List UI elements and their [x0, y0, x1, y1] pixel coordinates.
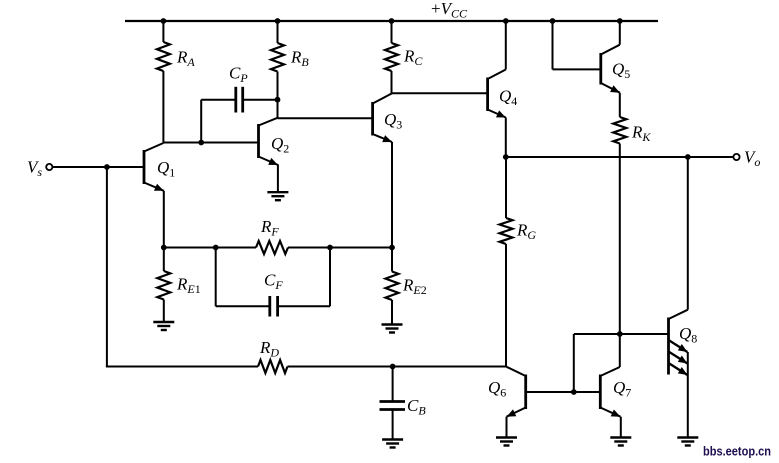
junction on rail at RA	[161, 18, 167, 24]
wire Vs to Q1 base	[53, 166, 145, 168]
wire Q4 emitter to output line	[505, 118, 507, 158]
resistor RC	[385, 21, 423, 93]
node CF right	[327, 245, 333, 251]
transistor Q6	[488, 367, 526, 417]
node Q7 collector junction	[617, 331, 623, 337]
resistor RG	[500, 157, 537, 367]
svg-text:CP: CP	[229, 64, 248, 86]
node CB junction	[390, 364, 396, 370]
svg-text:Q7: Q7	[613, 378, 631, 400]
node output at Q4 emitter	[503, 154, 509, 160]
wire Q6 Q7 base	[526, 391, 601, 393]
junction on rail at Q5 base	[550, 18, 556, 24]
node CF left	[213, 245, 219, 251]
svg-text:RE2: RE2	[402, 276, 427, 298]
transistor Q4	[488, 70, 518, 118]
svg-text:Q4: Q4	[499, 87, 517, 109]
wire Q2 emitter to ground	[277, 165, 279, 193]
ground RE2	[382, 325, 403, 333]
svg-text:RB: RB	[290, 48, 309, 70]
wire Q5 collector to rail	[619, 21, 621, 45]
ground Q8	[677, 438, 698, 446]
svg-text:Q3: Q3	[384, 110, 402, 132]
wire Q7 emitter to ground	[620, 417, 622, 438]
wire feedback node line left	[164, 247, 256, 249]
transistor Q2	[259, 118, 290, 165]
transistor Q7	[600, 367, 631, 417]
watermark	[703, 444, 771, 459]
svg-text:RC: RC	[403, 47, 423, 69]
label +VCC	[431, 0, 468, 21]
wire base junction to Q8 base	[574, 334, 669, 392]
transistor Q5	[601, 45, 630, 93]
transistor Q8	[669, 310, 698, 375]
svg-text:RF: RF	[260, 217, 279, 239]
svg-text:CB: CB	[407, 396, 426, 418]
resistor RE1	[157, 248, 200, 323]
svg-text:+VCC: +VCC	[431, 0, 468, 21]
ground Q6	[496, 438, 517, 446]
power rail +VCC	[125, 20, 658, 22]
ground Q7	[610, 438, 631, 446]
ground Q2	[267, 192, 288, 200]
wire Q1 emitter	[163, 191, 165, 248]
svg-text:bbs.eetop.cn: bbs.eetop.cn	[703, 444, 771, 459]
node feedback at Q1 emitter	[161, 245, 167, 251]
resistor RF	[256, 217, 288, 254]
node input junction	[104, 164, 110, 170]
wire Q5 base loop	[553, 21, 601, 69]
wire Q4 collector to rail	[505, 21, 507, 70]
svg-text:RG: RG	[516, 221, 536, 243]
resistor RE2	[386, 248, 427, 325]
node Q6 Q7 base junction	[571, 389, 577, 395]
svg-text:RA: RA	[176, 48, 195, 70]
svg-text:RK: RK	[631, 123, 651, 145]
svg-text:Vs: Vs	[27, 158, 42, 180]
junction on rail at RB	[275, 18, 281, 24]
node CP right junction	[275, 97, 281, 103]
wire Q8 emitter to ground	[687, 352, 689, 438]
svg-text:Q1: Q1	[157, 158, 175, 180]
node output at Q8 collector	[685, 154, 691, 160]
transistor Q1	[144, 143, 175, 191]
svg-text:Q6: Q6	[488, 378, 506, 400]
resistor RB	[271, 21, 309, 118]
wire Q3 emitter to feedback node	[391, 142, 393, 248]
capacitor CP	[201, 64, 277, 143]
svg-text:RE1: RE1	[176, 275, 201, 297]
output terminal Vo	[733, 148, 760, 170]
wire output line	[506, 156, 734, 158]
wire RB to Q3 base	[278, 117, 373, 119]
node feedback at Q3 emitter	[389, 245, 395, 251]
ground RE1	[153, 322, 174, 330]
wire feedback node line right	[288, 247, 392, 249]
wire Q6 emitter to ground	[506, 417, 508, 438]
junction on rail at Q4 collector	[503, 18, 509, 24]
junction on rail at RC	[389, 18, 395, 24]
svg-text:Q2: Q2	[271, 134, 289, 156]
wire input to RD	[106, 167, 258, 367]
resistor RD	[258, 338, 288, 373]
wire RK to Q7 collector	[619, 144, 621, 368]
svg-text:Vo: Vo	[744, 148, 760, 170]
capacitor CF	[216, 248, 330, 317]
svg-text:RD: RD	[259, 338, 279, 360]
wire Q1 collector to Q2 base	[163, 142, 258, 144]
input terminal Vs	[27, 158, 52, 180]
svg-text:CF: CF	[264, 271, 283, 293]
svg-text:Q8: Q8	[679, 324, 697, 346]
wire RD to Q6 collector	[288, 366, 507, 368]
resistor RK	[613, 93, 651, 144]
transistor Q3	[373, 93, 403, 142]
svg-text:Q5: Q5	[612, 60, 630, 82]
node CP left junction	[198, 140, 204, 146]
junction on rail at Q5 collector	[617, 18, 623, 24]
ground CB	[382, 440, 403, 448]
wire Q8 collector to output	[687, 157, 689, 310]
capacitor CB	[380, 367, 427, 440]
wire RC to Q4 base	[392, 92, 488, 94]
resistor RA	[157, 21, 195, 143]
